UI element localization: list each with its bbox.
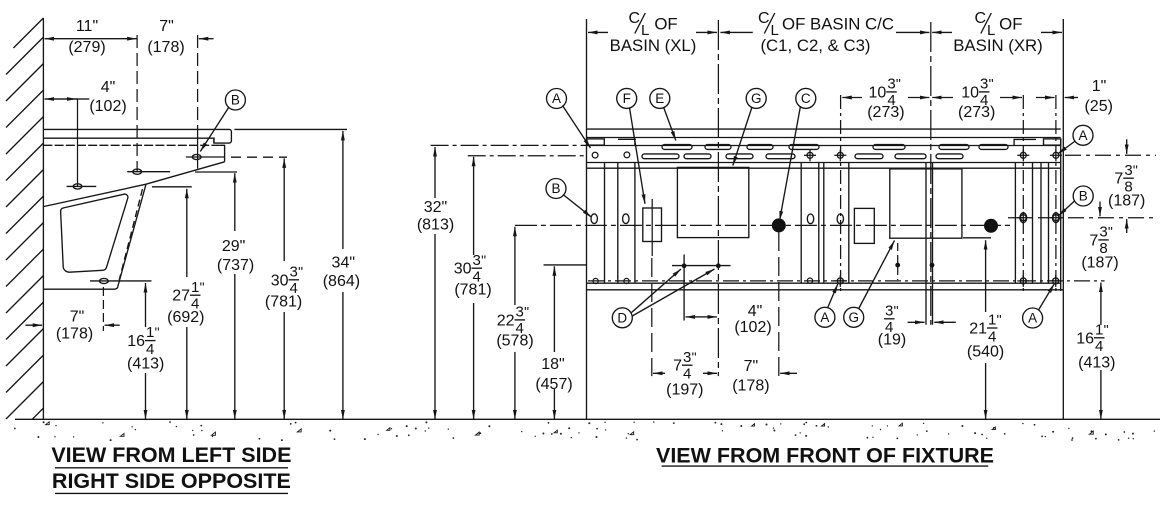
svg-text:(737): (737)	[217, 257, 254, 274]
callout A bottom-mid	[815, 307, 835, 327]
svg-text:(102): (102)	[89, 98, 126, 115]
mounting plate box XR	[890, 169, 962, 238]
dim 7in front (178)	[780, 372, 797, 374]
svg-text:3: 3	[290, 263, 298, 280]
mid holes	[591, 214, 597, 224]
svg-text:3: 3	[887, 76, 895, 93]
stud verticals	[683, 255, 685, 321]
svg-text:": "	[997, 312, 1002, 328]
svg-text:7": 7"	[744, 358, 759, 375]
anchor bolt columns (dash-dot)	[840, 95, 842, 291]
dim CL basin XR	[932, 31, 952, 33]
dim 22-3/4 (578)	[514, 227, 516, 305]
svg-text:E: E	[655, 91, 664, 106]
rail right step	[1014, 138, 1037, 140]
svg-text:7": 7"	[159, 18, 174, 35]
callout G bottom	[844, 307, 864, 327]
svg-text:(781): (781)	[454, 282, 491, 299]
svg-text:1: 1	[146, 324, 154, 341]
drain XR (filled)	[984, 219, 998, 233]
svg-text:(197): (197)	[666, 382, 703, 399]
dim 7-3/4 (197)	[653, 372, 665, 374]
callout G	[746, 88, 766, 108]
mid anchor bolts right	[1020, 215, 1026, 221]
svg-text:B: B	[551, 181, 560, 196]
svg-text:32": 32"	[424, 199, 447, 216]
svg-text:(178): (178)	[56, 326, 93, 343]
dim 27-1/4 (692)	[186, 189, 188, 277]
dim 7-3/8 upper	[1126, 139, 1128, 154]
apron edge	[219, 145, 224, 162]
svg-text:3: 3	[885, 302, 893, 319]
svg-text:C: C	[801, 91, 811, 106]
svg-text:(540): (540)	[967, 344, 1004, 361]
svg-text:21: 21	[969, 321, 987, 338]
svg-text:34": 34"	[332, 255, 355, 272]
wall hatching	[6, 18, 43, 419]
stud dots	[682, 263, 687, 268]
ext line for 21-1/4	[963, 237, 991, 239]
fitting rect right	[854, 208, 874, 243]
svg-text:30: 30	[454, 261, 472, 278]
svg-text:4: 4	[683, 366, 691, 383]
bracket hidden edge (dashed)	[119, 189, 142, 280]
callout B right	[1073, 186, 1093, 206]
callout F	[617, 88, 637, 108]
dim 30-3/4 front (781)	[473, 157, 475, 255]
dim 3/4 (19)	[908, 321, 925, 323]
svg-text:(187): (187)	[1081, 254, 1118, 271]
svg-text:3: 3	[473, 252, 481, 269]
drain C (filled)	[772, 218, 786, 232]
svg-text:(457): (457)	[535, 376, 572, 393]
bolt B4 (bottom)	[100, 278, 109, 283]
svg-text:1: 1	[191, 279, 199, 296]
svg-text:A: A	[1028, 311, 1037, 326]
svg-text:10: 10	[961, 84, 979, 101]
dim 11in (279)	[45, 38, 90, 40]
bottom anchor line (dash-dot)	[588, 280, 1105, 282]
svg-text:(19): (19)	[878, 332, 906, 349]
svg-text:F: F	[623, 91, 631, 106]
svg-text:(187): (187)	[1108, 192, 1145, 209]
svg-text:(692): (692)	[167, 309, 204, 326]
svg-text:": "	[989, 76, 994, 92]
callout D	[612, 308, 632, 328]
svg-text:30: 30	[271, 272, 289, 289]
centerline C basins (vertical)	[717, 20, 719, 376]
svg-text:": "	[894, 302, 899, 318]
fixture right edge	[1062, 19, 1064, 419]
svg-text:3: 3	[1099, 224, 1107, 241]
ext dash y145.8	[431, 144, 587, 146]
svg-text:RIGHT SIDE OPPOSITE: RIGHT SIDE OPPOSITE	[52, 469, 291, 493]
svg-text:(178): (178)	[147, 39, 184, 56]
svg-text:22: 22	[497, 312, 515, 329]
callout A bottom-right	[1023, 308, 1043, 328]
svg-text:3: 3	[980, 76, 988, 93]
svg-text:OF: OF	[654, 15, 677, 34]
dim 29 (737)	[234, 173, 236, 231]
top anchor bolts	[807, 152, 813, 158]
dim 32 (813)	[434, 147, 436, 198]
fitting rect F	[643, 208, 662, 242]
bottom rail	[587, 282, 1061, 284]
dim 21-1/4 (540)	[985, 240, 987, 312]
right ext dash y217.7	[1008, 217, 1156, 219]
dim gap arrows	[1036, 97, 1055, 99]
svg-text:18": 18"	[541, 356, 564, 373]
counter top (left view)	[43, 129, 231, 143]
svg-text:B: B	[231, 93, 240, 108]
ext dash y155.4	[468, 155, 587, 157]
floor line	[15, 418, 1160, 420]
stud line	[672, 265, 731, 267]
svg-text:(864): (864)	[323, 273, 360, 290]
dim 16-1/4 right (413)	[1100, 283, 1102, 325]
bolt B2	[133, 169, 142, 174]
svg-text:A: A	[552, 91, 561, 106]
svg-text:": "	[200, 279, 205, 295]
dim 4in front (102)	[686, 316, 702, 318]
svg-text:": "	[1133, 162, 1138, 178]
svg-text:27: 27	[172, 288, 190, 305]
svg-text:": "	[1108, 224, 1113, 240]
svg-text:VIEW FROM LEFT SIDE: VIEW FROM LEFT SIDE	[51, 443, 291, 467]
dim 34 (864)	[342, 131, 344, 249]
callout A top-left	[547, 89, 567, 109]
svg-text:16: 16	[1076, 330, 1094, 347]
dim CL basin XL	[588, 31, 608, 33]
svg-text:C: C	[975, 10, 987, 27]
extension x103 (7in bottom)	[102, 287, 104, 331]
extension line x77 (4in)	[77, 99, 79, 186]
svg-text:B: B	[1079, 189, 1088, 204]
svg-text:4": 4"	[101, 79, 116, 96]
svg-text:BASIN (XL): BASIN (XL)	[610, 36, 697, 55]
svg-text:A: A	[820, 310, 829, 325]
dim 10-3/4 second	[932, 97, 953, 99]
dim 10-3/4 first	[842, 97, 862, 99]
bolt centerline y186	[67, 185, 97, 187]
centerline 7-3/4 ext	[651, 258, 653, 376]
support bracket outline	[43, 162, 224, 289]
dim 18 (457)	[553, 266, 555, 352]
callout B (left view)	[225, 90, 245, 110]
svg-text:(413): (413)	[127, 356, 164, 373]
rail holes	[592, 152, 598, 158]
centerline XR (vertical)	[930, 22, 932, 325]
svg-text:(413): (413)	[1078, 355, 1115, 372]
mounting plate box C2	[677, 167, 748, 237]
svg-text:": "	[896, 76, 901, 92]
svg-text:": "	[1104, 321, 1109, 337]
counter hidden mounting line (heavy dashed)	[43, 144, 219, 146]
svg-text:OF BASIN C/C: OF BASIN C/C	[782, 15, 894, 34]
svg-text:4: 4	[1095, 338, 1103, 355]
dim 7in top (178)	[199, 38, 214, 40]
bolt centerline y172	[127, 171, 170, 173]
svg-text:G: G	[751, 91, 762, 106]
svg-text:BASIN (XR): BASIN (XR)	[953, 36, 1043, 55]
svg-text:16: 16	[127, 333, 145, 350]
bottom holes	[593, 278, 598, 283]
dim 30-3/4 (781)	[283, 158, 285, 261]
svg-text:4": 4"	[748, 303, 763, 320]
svg-text:G: G	[848, 310, 859, 325]
dim 16-1/4 (413)	[145, 283, 147, 327]
callout C	[796, 88, 816, 108]
callout A top-right	[1073, 125, 1093, 145]
svg-text:": "	[481, 252, 486, 268]
svg-text:(578): (578)	[496, 333, 533, 350]
svg-text:": "	[692, 349, 697, 365]
svg-text:3: 3	[683, 349, 691, 366]
extension centerline x137 (11in)	[136, 35, 138, 172]
svg-text:(273): (273)	[867, 104, 904, 121]
drain XR lower ext	[897, 243, 899, 280]
svg-text:(102): (102)	[734, 319, 771, 336]
svg-text:(781): (781)	[265, 294, 302, 311]
svg-text:": "	[298, 263, 303, 279]
uprights	[605, 163, 1049, 325]
bracket cutout	[61, 194, 128, 272]
svg-text:C: C	[629, 10, 641, 27]
dim 1in (25)	[1065, 97, 1078, 99]
extension centerline x197 (7in)	[197, 35, 199, 127]
svg-text:VIEW FROM FRONT OF FIXTURE: VIEW FROM FRONT OF FIXTURE	[656, 444, 994, 468]
dim CL basin C/C	[720, 31, 752, 33]
bolt centerline y281	[90, 280, 152, 282]
fixture left edge	[586, 19, 588, 419]
callout E	[650, 88, 670, 108]
bolt B1 (left view lower-left)	[73, 184, 82, 189]
wall (left view)	[42, 18, 44, 419]
bolt B3 (pointed by callout B)	[192, 154, 201, 159]
svg-text:A: A	[1078, 128, 1087, 143]
svg-text:C: C	[758, 10, 770, 27]
svg-text:(C1, C2, & C3): (C1, C2, & C3)	[760, 36, 870, 55]
svg-text:3: 3	[516, 304, 524, 321]
callout B front-left	[546, 179, 566, 199]
svg-text:(178): (178)	[732, 378, 769, 395]
svg-text:1: 1	[988, 312, 996, 329]
svg-text:D: D	[617, 311, 627, 326]
svg-text:11": 11"	[76, 18, 98, 35]
svg-text:7: 7	[1114, 171, 1123, 188]
bolt centerline y157 with dashes	[186, 156, 225, 158]
svg-text:": "	[524, 304, 529, 320]
svg-text:7: 7	[673, 358, 682, 375]
rail slots	[642, 145, 1008, 159]
dim 7-3/8 lower	[1126, 219, 1128, 233]
centerline drain C	[778, 232, 780, 376]
floor speckle texture	[14, 421, 1155, 441]
svg-text:1": 1"	[1092, 78, 1107, 95]
svg-text:29": 29"	[222, 238, 245, 255]
right ext dash y155.3	[1065, 154, 1156, 156]
extension line y129 (34in)	[234, 128, 347, 130]
rail left step	[587, 139, 604, 145]
dim 4in (102)	[45, 98, 78, 100]
svg-text:7": 7"	[70, 309, 85, 326]
svg-text:10: 10	[869, 84, 887, 101]
svg-text:3: 3	[1124, 162, 1132, 179]
svg-text:(25): (25)	[1084, 98, 1112, 115]
svg-text:(279): (279)	[68, 39, 105, 56]
top rail	[587, 128, 1061, 130]
svg-text:(273): (273)	[958, 104, 995, 121]
svg-text:OF: OF	[999, 15, 1022, 34]
svg-text:1: 1	[1095, 321, 1103, 338]
dim 7in left bottom (178)	[25, 324, 42, 326]
svg-text:7: 7	[1089, 232, 1098, 249]
horizontal centerline of fixture	[515, 224, 1010, 226]
svg-text:": "	[155, 324, 160, 340]
svg-text:(813): (813)	[417, 216, 454, 233]
